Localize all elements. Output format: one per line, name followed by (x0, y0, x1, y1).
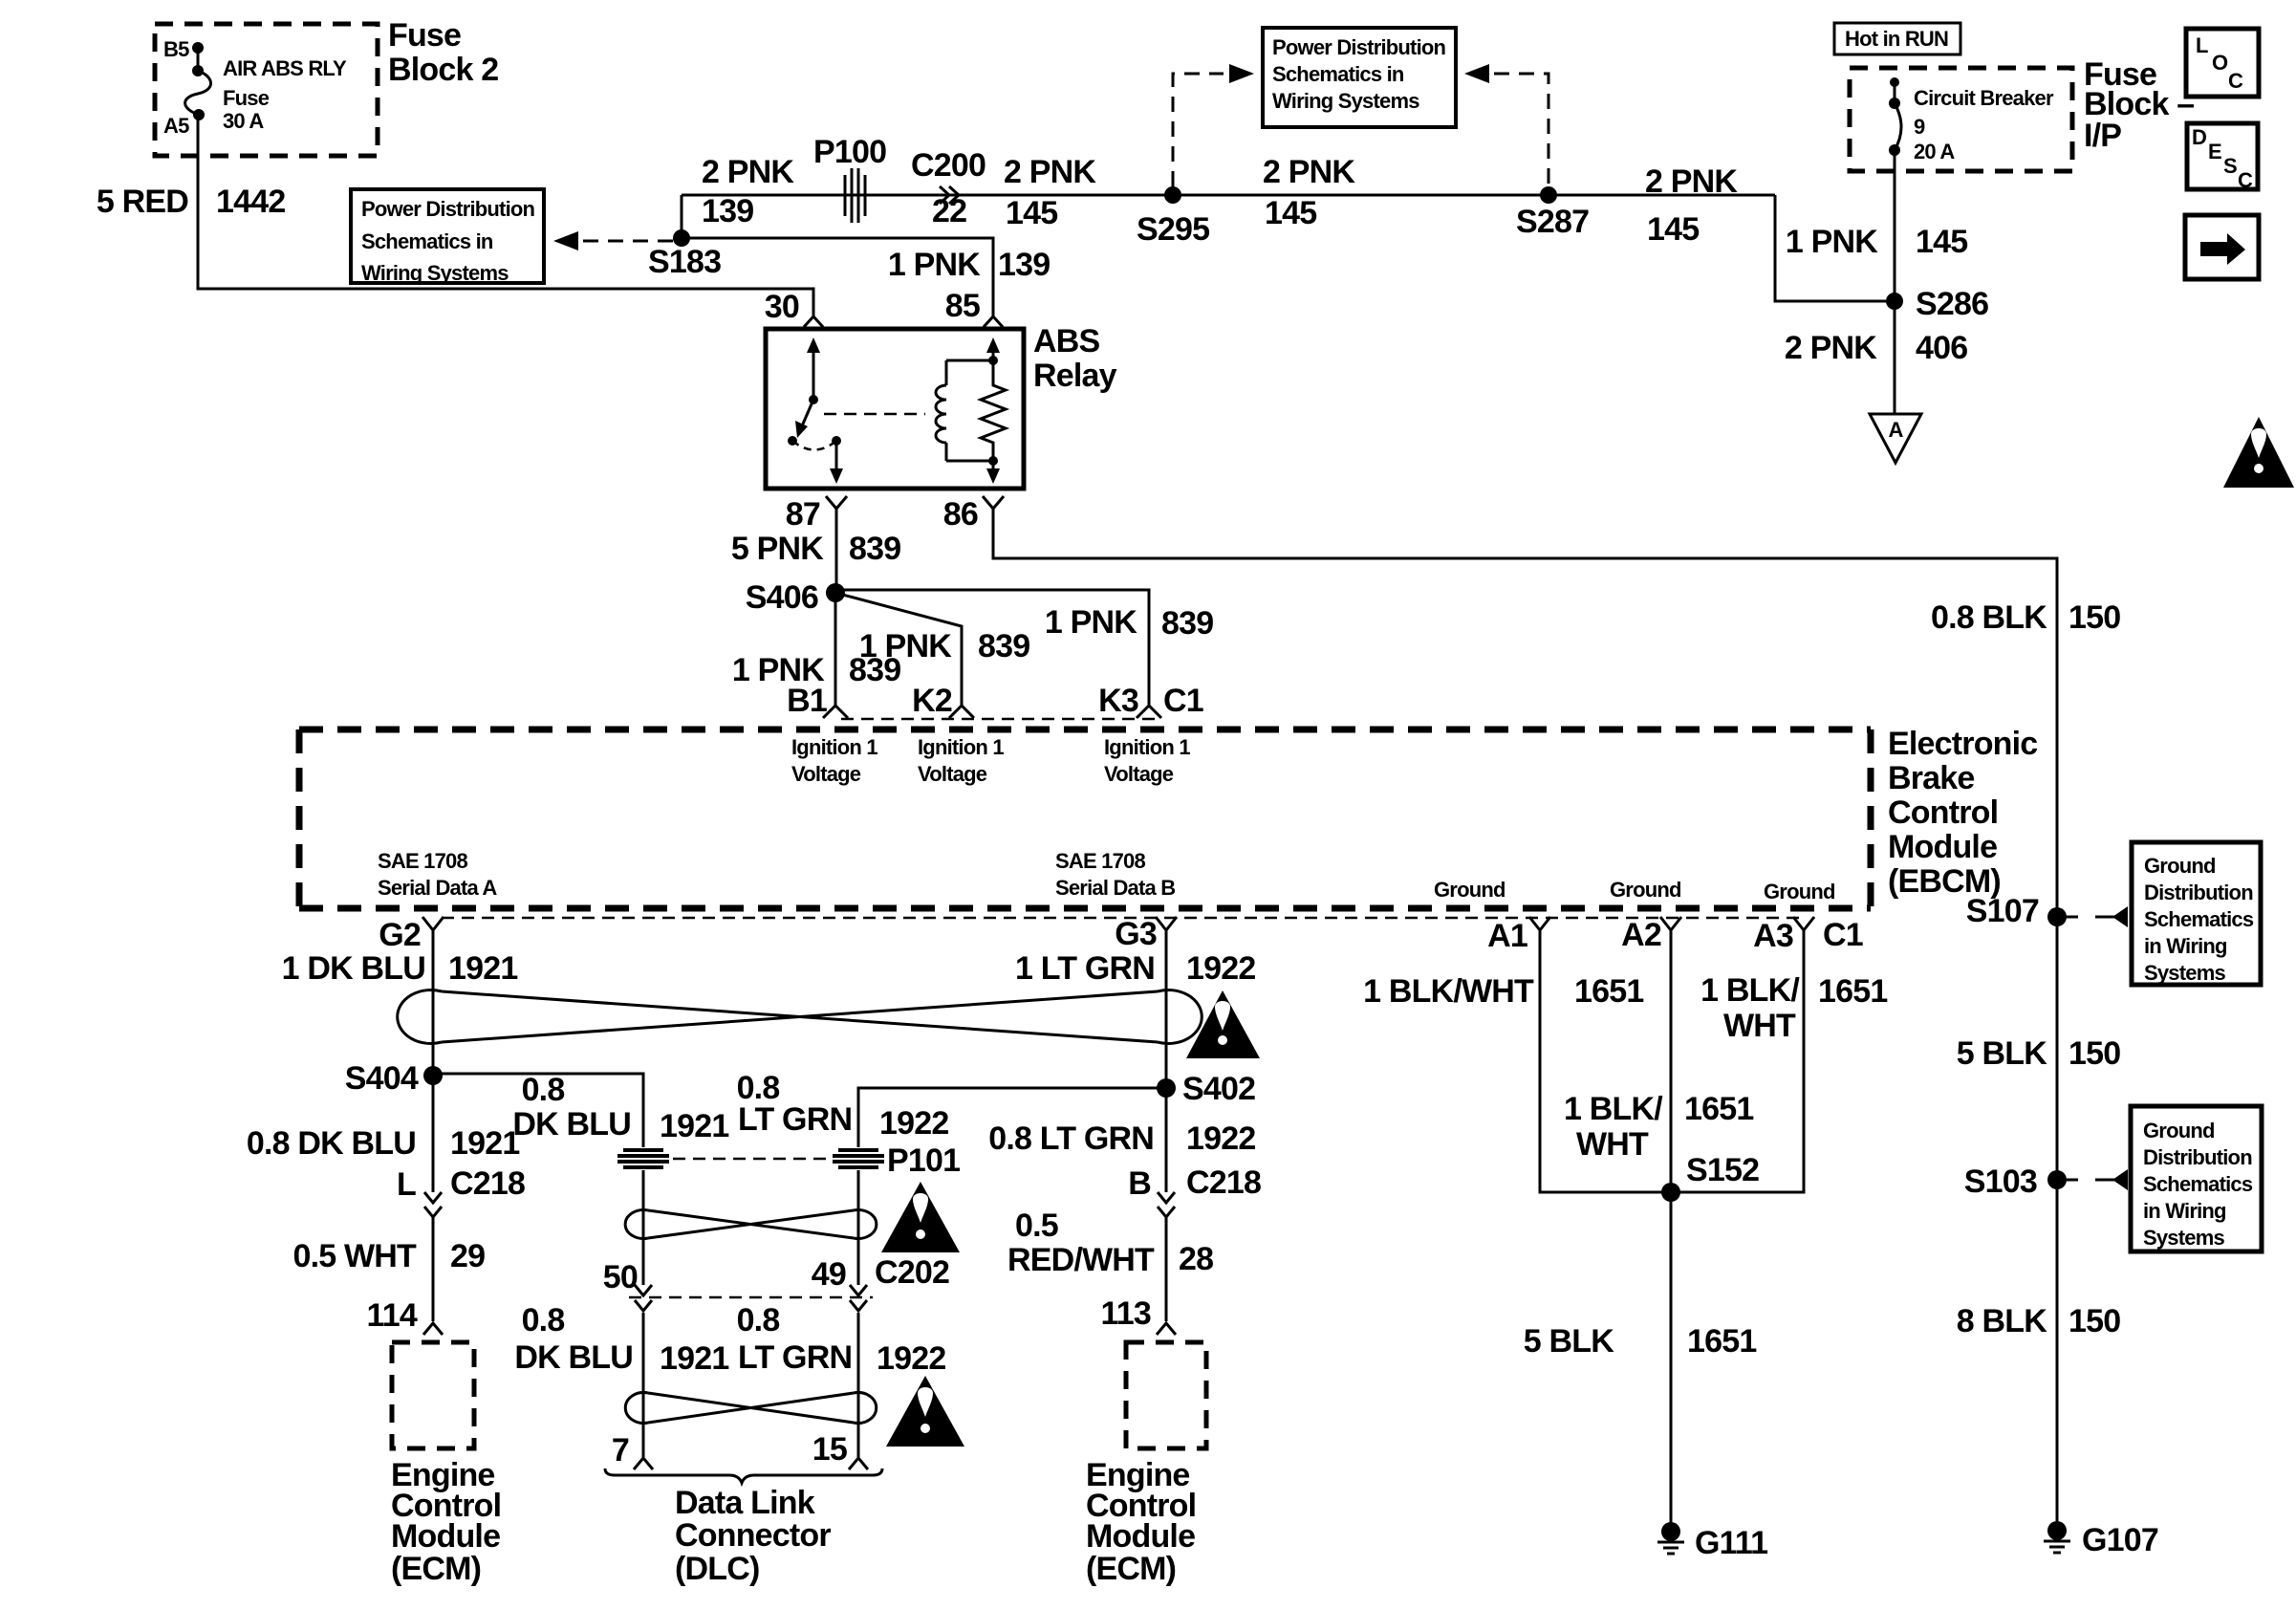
node S152 (1661, 1152, 1759, 1202)
node S406 (746, 579, 845, 616)
relay pin 86 (943, 496, 1004, 533)
svg-text:8 BLK: 8 BLK (1957, 1303, 2047, 1339)
wire S402 down to ECM pin 113 (1165, 1088, 1168, 1192)
svg-text:P100: P100 (813, 134, 886, 170)
svg-text:113: 113 (1101, 1295, 1151, 1332)
svg-text:1 BLK/: 1 BLK/ (1700, 972, 1800, 1009)
svg-text:S286: S286 (1916, 286, 1988, 322)
svg-text:S406: S406 (746, 579, 818, 616)
svg-text:0.8: 0.8 (522, 1072, 565, 1108)
svg-text:G111: G111 (1695, 1525, 1767, 1561)
terminal A5 label (163, 114, 189, 138)
svg-text:5 RED: 5 RED (97, 184, 188, 220)
svg-text:O: O (2212, 51, 2228, 75)
svg-text:C1: C1 (1163, 683, 1203, 719)
svg-text:Relay: Relay (1033, 358, 1117, 394)
wire label 0.8 DK BLU 1921 branch (512, 1072, 728, 1144)
svg-text:0.8 LT GRN: 0.8 LT GRN (988, 1120, 1154, 1157)
node S107 (1966, 893, 2067, 929)
svg-text:S152: S152 (1686, 1152, 1759, 1188)
ECM pin 113 chevron (1101, 1295, 1176, 1335)
svg-text:139: 139 (702, 193, 753, 229)
svg-text:1 BLK/: 1 BLK/ (1564, 1091, 1663, 1127)
wire label 0.5 WHT 29 (292, 1238, 485, 1274)
svg-text:114: 114 (367, 1297, 418, 1334)
svg-text:1921: 1921 (448, 950, 517, 987)
wire label 1 PNK 839 for K3 (1045, 604, 1213, 642)
relay pin 87 (786, 496, 847, 593)
svg-text:S295: S295 (1137, 211, 1209, 248)
power distribution reference box 2 (1263, 28, 1456, 127)
svg-text:A1: A1 (1487, 918, 1527, 954)
svg-text:1 PNK: 1 PNK (888, 247, 981, 283)
wire riser S183 to bus (681, 195, 683, 238)
relay U1 ABS Relay box (766, 323, 1117, 489)
EBCM pin function SAE 1708 Serial Data B (1055, 849, 1175, 900)
svg-text:Systems: Systems (2143, 1226, 2224, 1250)
warning triangle near C202 (881, 1182, 960, 1252)
relay coil rails and junctions (946, 356, 998, 466)
ECM left dashed box (392, 1342, 474, 1448)
svg-text:Voltage: Voltage (918, 762, 987, 786)
wire A3 C1 ground down (1671, 930, 1804, 1192)
svg-text:S183: S183 (648, 244, 721, 280)
EBCM pin function Ignition 1 Voltage K3 (1104, 735, 1190, 786)
svg-text:2 PNK: 2 PNK (1263, 154, 1355, 190)
svg-text:29: 29 (450, 1238, 485, 1274)
wire label 5 PNK 839 (731, 531, 900, 567)
svg-text:Electronic: Electronic (1888, 726, 2037, 762)
svg-text:86: 86 (943, 496, 978, 533)
svg-text:RED/WHT: RED/WHT (1007, 1242, 1155, 1278)
svg-text:1 PNK: 1 PNK (859, 628, 952, 664)
ground distribution reference box 2 (2131, 1106, 2262, 1251)
fuse block 2 dashed box (155, 24, 378, 156)
svg-text:Ground: Ground (1764, 880, 1835, 903)
relay pin 30 (765, 289, 823, 327)
dashed reference from S295 up to box 2 (1173, 64, 1254, 186)
node S286 (1886, 286, 1988, 322)
wire label 0.8 DK BLU 1921 ECM (247, 1125, 520, 1162)
svg-text:30 A: 30 A (223, 109, 264, 133)
relay coil suppression resistor (981, 360, 1006, 461)
wire label 5 BLK 150 (1957, 1035, 2121, 1072)
wire S402 branch to DLC pin 49 (858, 1088, 1166, 1147)
svg-text:Ground: Ground (2143, 1119, 2215, 1142)
pin A1 chevron (1487, 917, 1550, 954)
wire G3 serial data B down to S402 (1165, 930, 1168, 1088)
wire label 1 BLK WHT 1651 A3 (1700, 972, 1887, 1044)
svg-text:0.8 DK BLU: 0.8 DK BLU (247, 1125, 416, 1162)
wire main bus 2 PNK (682, 194, 1775, 197)
EBCM pin function SAE 1708 Serial Data A (378, 849, 497, 900)
svg-text:2 PNK: 2 PNK (1645, 163, 1738, 200)
svg-text:ABS: ABS (1033, 323, 1100, 359)
svg-text:I/P: I/P (2084, 118, 2121, 154)
wire pin 49 to DLC pin 15 (857, 1313, 860, 1457)
svg-text:G3: G3 (1115, 916, 1157, 952)
svg-text:145: 145 (1647, 211, 1699, 248)
wire S152 to G111 (1670, 1192, 1673, 1523)
wire circuit breaker down to triangle A (1894, 150, 1896, 414)
svg-text:1 DK BLU: 1 DK BLU (282, 950, 425, 987)
wire S404 down to ECM pin 114 (432, 1076, 435, 1192)
relay pin 85 (945, 288, 1003, 327)
svg-text:S103: S103 (1964, 1164, 2037, 1200)
pin B1 chevron (787, 683, 848, 719)
svg-text:28: 28 (1179, 1241, 1213, 1277)
relay switch contacts (788, 436, 841, 450)
svg-text:A2: A2 (1621, 917, 1661, 953)
svg-text:L: L (2196, 33, 2208, 57)
svg-text:0.5 WHT: 0.5 WHT (292, 1238, 417, 1274)
svg-text:145: 145 (1916, 224, 1967, 260)
DLC pin 7 chevron (612, 1432, 653, 1469)
svg-text:Ignition 1: Ignition 1 (1104, 735, 1190, 759)
EBCM pin function Ignition 1 Voltage K2 (918, 735, 1004, 786)
svg-text:1651: 1651 (1574, 973, 1643, 1010)
wire G2 serial data A down to S404 (432, 930, 435, 1076)
wire label 8 BLK 150 (1957, 1303, 2121, 1339)
wire label 1 BLK WHT 1651 A2 (1564, 1091, 1753, 1163)
svg-text:S404: S404 (345, 1060, 419, 1097)
DLC pin 15 chevron (812, 1431, 868, 1469)
connector C202 pin 49 chevrons (812, 1256, 867, 1311)
pin K2 chevron (912, 683, 974, 719)
wire label 1 PNK 145 (1786, 224, 1967, 260)
EBCM pin function Ground A1 (1434, 878, 1505, 902)
svg-text:30: 30 (765, 289, 799, 325)
wire C218 L to ECM 114 (432, 1217, 435, 1321)
svg-text:A3: A3 (1753, 918, 1793, 954)
svg-text:in Wiring: in Wiring (2144, 934, 2227, 958)
svg-text:Serial Data A: Serial Data A (378, 876, 497, 900)
svg-text:LT GRN: LT GRN (738, 1101, 852, 1138)
LOC legend box (2186, 29, 2259, 97)
node S402 (1157, 1071, 1255, 1107)
svg-text:K2: K2 (912, 683, 952, 719)
svg-text:AIR ABS RLY: AIR ABS RLY (223, 56, 347, 80)
svg-text:Systems: Systems (2144, 961, 2225, 985)
wire 5 RED 1442 from A5 to relay pin 30 (198, 115, 813, 316)
svg-text:139: 139 (998, 247, 1050, 283)
svg-text:1922: 1922 (877, 1340, 945, 1377)
svg-text:0.5: 0.5 (1015, 1207, 1058, 1244)
svg-text:0.8 BLK: 0.8 BLK (1931, 599, 2047, 636)
svg-text:C: C (2228, 69, 2243, 93)
svg-text:Wiring Systems: Wiring Systems (361, 261, 509, 285)
pin G3 chevron (1115, 916, 1177, 952)
svg-text:50: 50 (603, 1259, 638, 1295)
svg-text:Circuit Breaker: Circuit Breaker (1914, 86, 2054, 110)
svg-text:1922: 1922 (1186, 950, 1255, 987)
wire S406 to pin B1 (834, 593, 837, 706)
svg-text:Ground: Ground (1434, 878, 1505, 902)
svg-text:E: E (2208, 140, 2221, 163)
svg-text:0.8: 0.8 (737, 1302, 780, 1338)
wire label 1 PNK 839 for K2 (859, 628, 1029, 664)
svg-text:G2: G2 (379, 917, 421, 953)
hot in run box (1834, 23, 1960, 54)
connector C200 (911, 147, 986, 229)
svg-text:1921: 1921 (660, 1340, 728, 1377)
wire 1 PNK 139 from S183 to relay pin 85 (682, 238, 993, 316)
svg-text:SAE 1708: SAE 1708 (1055, 849, 1145, 873)
svg-text:15: 15 (812, 1431, 847, 1468)
svg-text:C218: C218 (450, 1165, 525, 1202)
svg-text:DK BLU: DK BLU (512, 1106, 631, 1142)
svg-text:B5: B5 (163, 37, 189, 61)
svg-text:S287: S287 (1516, 204, 1589, 240)
svg-text:Fuse: Fuse (388, 17, 461, 54)
svg-text:G107: G107 (2082, 1522, 2158, 1558)
svg-text:L: L (397, 1166, 416, 1203)
fuse block 2 label (388, 17, 498, 88)
wire A1 ground down (1540, 930, 1671, 1192)
svg-text:150: 150 (2069, 1303, 2120, 1339)
warning triangle near DLC (886, 1376, 964, 1447)
svg-text:SAE 1708: SAE 1708 (378, 849, 467, 873)
node S103 (1964, 1164, 2067, 1200)
svg-text:1 BLK/WHT: 1 BLK/WHT (1363, 973, 1534, 1010)
svg-text:Power Distribution: Power Distribution (1272, 35, 1446, 59)
wire label 0.8 LT GRN 1922 DLC (737, 1302, 946, 1377)
svg-text:2 PNK: 2 PNK (1785, 330, 1877, 366)
pin G2 chevron (379, 917, 444, 953)
EBCM pin function Ground A3 (1764, 880, 1835, 903)
svg-text:C: C (2238, 168, 2253, 192)
svg-text:D: D (2192, 125, 2206, 149)
wire label 0.8 LT GRN 1922 branch (737, 1070, 949, 1142)
relay switch output to pin 87 (830, 441, 843, 484)
reference arrow S103 (2067, 1169, 2128, 1190)
svg-text:Block 2: Block 2 (388, 52, 498, 88)
wire from bus corner down to S286 (1775, 195, 1886, 301)
wire 0.8 BLK 150 from pin 86 to right rail (993, 509, 2057, 1521)
svg-text:1 PNK: 1 PNK (1786, 224, 1878, 260)
svg-text:B1: B1 (787, 683, 827, 719)
svg-text:2 PNK: 2 PNK (1004, 154, 1096, 190)
svg-text:1442: 1442 (216, 184, 285, 220)
circuit breaker 9 20A (1889, 77, 2054, 163)
wire label 2 PNK 406 (1785, 330, 1967, 366)
node S183 (648, 229, 721, 280)
wire P101 left down to pin 50 (642, 1170, 645, 1285)
ECM pin 114 chevron (367, 1297, 443, 1335)
arrow legend box (2185, 215, 2259, 279)
node S295 (1137, 186, 1209, 248)
svg-text:Schematics: Schematics (2143, 1172, 2253, 1196)
power distribution reference box 1 (351, 189, 544, 285)
dashed reference arrow from S183 to box 1 (553, 231, 675, 250)
svg-text:1921: 1921 (450, 1125, 519, 1162)
svg-text:1 PNK: 1 PNK (1045, 604, 1137, 641)
DESC legend box (2187, 123, 2258, 192)
svg-text:P101: P101 (887, 1142, 960, 1179)
ground distribution reference box 1 (2132, 842, 2261, 985)
wire S406 to pin K2 (835, 593, 962, 706)
connector C202 pin 50 chevrons (603, 1259, 652, 1311)
svg-text:1651: 1651 (1818, 973, 1887, 1010)
svg-text:Data Link: Data Link (675, 1485, 815, 1521)
svg-text:Ignition 1: Ignition 1 (791, 735, 877, 759)
svg-text:Ignition 1: Ignition 1 (918, 735, 1004, 759)
wire label 2 PNK 139 (702, 154, 794, 229)
svg-text:150: 150 (2069, 1035, 2120, 1072)
connector P101 left half (617, 1150, 669, 1167)
svg-text:Connector: Connector (675, 1517, 831, 1554)
wire pin 50 to DLC pin 7 (642, 1313, 645, 1457)
connector dashed line above EBCM (841, 718, 1161, 721)
DLC brace (605, 1469, 882, 1483)
node S287 (1516, 186, 1589, 240)
connector C218 pin B chevrons (1128, 1164, 1261, 1217)
relay switch arm (795, 400, 813, 438)
svg-text:7: 7 (612, 1432, 629, 1469)
svg-text:Ground: Ground (1610, 878, 1681, 902)
wire label 1 BLK WHT 1651 A1 (1363, 973, 1643, 1010)
svg-text:A: A (1888, 418, 1903, 442)
svg-text:839: 839 (1161, 605, 1213, 642)
wire label 0.8 BLK 150 (1931, 599, 2120, 636)
svg-text:87: 87 (786, 496, 820, 533)
svg-text:C200: C200 (911, 147, 986, 184)
fuse F_AIRABS AIR ABS RLY 30A label (223, 56, 347, 133)
svg-text:145: 145 (1265, 195, 1316, 231)
svg-text:Schematics in: Schematics in (1272, 62, 1404, 86)
twisted pair G2 G3 (398, 990, 1202, 1044)
svg-text:Distribution: Distribution (2143, 1145, 2252, 1169)
wire label 1 PNK 839 for B1 (732, 652, 900, 688)
ECM right label (1086, 1457, 1196, 1587)
wire label 5 BLK 1651 (1524, 1323, 1757, 1360)
ECM left label (391, 1457, 501, 1587)
relay pin 85 internal lead (986, 337, 1000, 360)
connector dashed line below EBCM (442, 917, 1805, 920)
svg-text:DK BLU: DK BLU (514, 1339, 633, 1376)
svg-text:(ECM): (ECM) (391, 1551, 481, 1587)
node S404 (345, 1060, 443, 1097)
svg-text:5 BLK: 5 BLK (1957, 1035, 2047, 1072)
svg-text:85: 85 (945, 288, 980, 324)
fuse block IP dashed box (1850, 68, 2072, 171)
pin A3 C1 chevron (1753, 917, 1863, 954)
wire label 1 LT GRN 1922 (1015, 950, 1255, 987)
svg-text:C218: C218 (1186, 1164, 1261, 1201)
EBCM label (1888, 726, 2037, 900)
svg-text:C1: C1 (1823, 917, 1863, 953)
svg-text:Control: Control (1888, 794, 1998, 831)
svg-text:1651: 1651 (1687, 1323, 1756, 1360)
svg-text:5 BLK: 5 BLK (1524, 1323, 1614, 1360)
svg-text:(DLC): (DLC) (675, 1551, 760, 1587)
connector P100 (813, 134, 886, 223)
svg-text:Power Distribution: Power Distribution (361, 197, 535, 221)
svg-text:in Wiring: in Wiring (2143, 1199, 2226, 1223)
svg-text:1651: 1651 (1684, 1091, 1753, 1127)
relay coil (936, 360, 946, 461)
fuse F_AIRABS symbol (185, 42, 211, 120)
terminal B5 label (163, 37, 189, 61)
svg-text:20 A: 20 A (1914, 140, 1955, 163)
wire label 2 PNK 145 segment 2 (1263, 154, 1355, 231)
svg-text:B: B (1128, 1165, 1151, 1202)
svg-text:839: 839 (849, 531, 900, 567)
relay internal dashed link (824, 413, 925, 416)
svg-text:0.8: 0.8 (522, 1302, 565, 1338)
svg-text:Module: Module (1888, 829, 1997, 865)
wire A2 ground down (1670, 930, 1673, 1192)
off-page triangle A (1870, 414, 1921, 463)
svg-text:(ECM): (ECM) (1086, 1551, 1176, 1587)
svg-text:K3: K3 (1098, 683, 1138, 719)
svg-text:WHT: WHT (1723, 1008, 1796, 1044)
wire label 0.5 RED WHT 28 (1007, 1207, 1213, 1278)
twisted pair above DLC (625, 1393, 876, 1424)
relay pin 86 internal lead (986, 461, 1000, 484)
wire label 0.8 LT GRN 1922 ECM (988, 1120, 1255, 1157)
svg-text:A5: A5 (163, 114, 189, 138)
svg-text:406: 406 (1916, 330, 1967, 366)
svg-text:S: S (2223, 154, 2237, 178)
connector P101 right half (833, 1142, 960, 1179)
svg-text:1922: 1922 (879, 1105, 948, 1142)
svg-text:Voltage: Voltage (1104, 762, 1174, 786)
svg-text:49: 49 (812, 1256, 846, 1293)
svg-text:5 PNK: 5 PNK (731, 531, 824, 567)
twisted pair above C202 (625, 1209, 877, 1238)
svg-text:1921: 1921 (660, 1108, 728, 1144)
svg-text:Fuse: Fuse (223, 86, 270, 110)
wire label 1 DK BLU 1921 (282, 950, 518, 987)
svg-text:150: 150 (2069, 599, 2120, 636)
connector C218 pin L chevrons (397, 1165, 525, 1217)
dashed reference from S287 up to box 2 (1464, 64, 1549, 186)
svg-text:S402: S402 (1182, 1071, 1255, 1107)
ECM right dashed box (1126, 1342, 1206, 1448)
svg-text:LT GRN: LT GRN (738, 1339, 852, 1376)
svg-text:Wiring Systems: Wiring Systems (1272, 89, 1419, 113)
EBCM pin function Ignition 1 Voltage B1 (791, 735, 877, 786)
svg-text:C202: C202 (875, 1254, 949, 1291)
fuse block IP label (2084, 56, 2194, 154)
connector C202 dashed line and label (629, 1254, 949, 1297)
svg-text:Schematics: Schematics (2144, 907, 2254, 931)
wire label 2 PNK 145 segment 3 (1645, 163, 1738, 248)
DLC label (675, 1485, 831, 1587)
EBCM pin function Ground A2 (1610, 878, 1681, 902)
connector P101 dashed link (673, 1158, 832, 1161)
svg-text:Ground: Ground (2144, 854, 2216, 878)
warning triangle near S402 (1186, 990, 1260, 1058)
svg-text:9: 9 (1914, 115, 1925, 139)
svg-text:2 PNK: 2 PNK (702, 154, 794, 190)
svg-text:S107: S107 (1966, 893, 2039, 929)
svg-text:WHT: WHT (1576, 1126, 1649, 1163)
svg-text:Module: Module (1086, 1518, 1195, 1555)
svg-text:1922: 1922 (1186, 1120, 1255, 1157)
wire label 0.8 DK BLU 1921 DLC (514, 1302, 728, 1377)
wire P101 right down to pin 49 (857, 1170, 860, 1285)
svg-text:145: 145 (1006, 195, 1057, 231)
wire label 2 PNK 145 segment 1 (1004, 154, 1096, 231)
wire label 5 RED 1442 (97, 184, 286, 220)
svg-text:Distribution: Distribution (2144, 881, 2253, 904)
ground G107 (2044, 1521, 2158, 1558)
pin A2 chevron (1621, 917, 1681, 953)
pin K3 C1 chevron (1098, 683, 1203, 719)
wire S406 to pin K3 C1 (835, 590, 1149, 706)
